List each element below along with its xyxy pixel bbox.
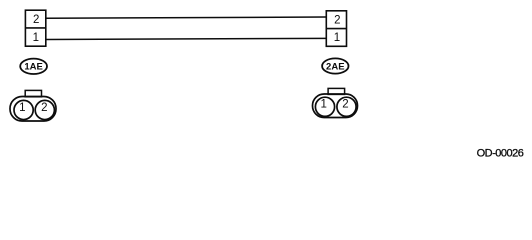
connector label 1AE — [20, 59, 47, 74]
svg-text:1: 1 — [320, 99, 326, 111]
wire bottom: 1AE pin 1 to 2AE pin 1 — [46, 38, 327, 39]
svg-text:OD-00026: OD-00026 — [477, 147, 524, 159]
svg-text:2: 2 — [334, 15, 340, 27]
svg-text:1: 1 — [19, 102, 25, 114]
cavity 2 (2AE face) — [337, 97, 356, 116]
cavity 2 (1AE face) — [35, 100, 54, 119]
svg-text:2AE: 2AE — [326, 62, 344, 73]
svg-text:1: 1 — [33, 32, 39, 44]
connector 1AE face view body — [10, 90, 56, 121]
connector 2AE face view body — [313, 88, 358, 117]
svg-text:1: 1 — [334, 32, 340, 44]
cavity 1 (2AE face) — [315, 97, 334, 116]
svg-text:2: 2 — [41, 102, 47, 114]
connector label 2AE — [322, 58, 348, 73]
svg-text:2: 2 — [342, 99, 348, 111]
connector 1AE terminal box — [25, 10, 45, 46]
wire top: 1AE pin 2 to 2AE pin 2 — [46, 17, 327, 18]
connector 2AE terminal box — [326, 11, 346, 47]
svg-text:1AE: 1AE — [24, 62, 42, 73]
cavity 1 (1AE face) — [14, 100, 33, 119]
svg-text:2: 2 — [33, 14, 39, 26]
